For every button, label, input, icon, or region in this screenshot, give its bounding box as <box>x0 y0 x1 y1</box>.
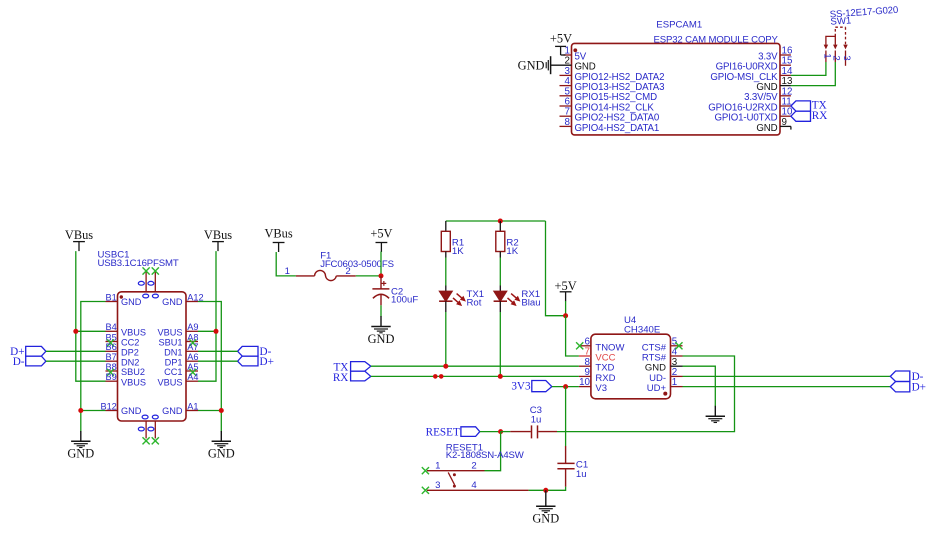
svg-text:10: 10 <box>579 377 590 388</box>
svg-text:GPIO4-HS2_DATA1: GPIO4-HS2_DATA1 <box>575 123 660 134</box>
svg-text:3: 3 <box>841 55 852 60</box>
USBC1 pin B4 (VBUS) <box>106 322 147 337</box>
svg-text:9: 9 <box>782 117 787 128</box>
svg-text:JFC0603-0500FS: JFC0603-0500FS <box>320 259 394 270</box>
svg-text:D+: D+ <box>912 381 926 393</box>
ground GND below USBC1 right <box>208 431 235 461</box>
ESPCAM1 pin 1 (5V) <box>565 46 587 63</box>
junction +5V/rail/U4 VCC <box>563 313 568 318</box>
net label TX at ESPCAM1 pin 11 <box>791 100 827 112</box>
svg-text:DN2: DN2 <box>121 357 139 367</box>
svg-text:CC2: CC2 <box>121 338 139 348</box>
svg-text:GND: GND <box>756 123 777 134</box>
USBC1 pin A1 (GND) <box>162 401 198 416</box>
U4 pin 10 (V3) <box>579 377 607 394</box>
RESET1 pin 1 with no-connect X <box>422 460 441 474</box>
wire pin A6 to D+ <box>198 360 238 362</box>
SW1 pin 2 <box>831 51 842 63</box>
wire junction down to U4 VCC pin 7 <box>566 316 579 356</box>
svg-text:1u: 1u <box>531 415 542 426</box>
wire RESET1 pin 4 to GND junction <box>529 489 546 491</box>
net label D- left <box>13 356 46 368</box>
svg-text:VBus: VBus <box>204 228 232 242</box>
svg-text:A6: A6 <box>187 352 198 362</box>
wire VBus left rail down to pin B4/B9 <box>76 251 106 381</box>
IC ESPCAM1 body (ESP32 CAM MODULE) <box>572 43 781 134</box>
ESPCAM1 pin 13 (GND) <box>756 76 793 93</box>
svg-text:RESET: RESET <box>426 426 460 438</box>
ESPCAM1 pin 8 (GPIO4-HS2_DATA1) <box>560 117 660 134</box>
USBC1 pin B5 (CC2) <box>106 332 140 347</box>
U4 pin 3 (GND) <box>645 357 683 374</box>
U4 pin 8 (TXD) <box>579 357 615 374</box>
ESPCAM1 pin 14 (GPIO-MSI_CLK) <box>710 66 793 83</box>
svg-text:V3: V3 <box>595 383 607 394</box>
svg-text:A7: A7 <box>187 342 198 352</box>
svg-text:+5V: +5V <box>550 32 572 46</box>
USBC1 pin A6 (DP1) <box>165 352 199 367</box>
ESPCAM1 pin 3 (GPIO12-HS2_DATA2) <box>560 66 665 83</box>
svg-text:CH340E: CH340E <box>624 324 660 335</box>
U4 pin 6 (TNOW) <box>579 336 625 353</box>
ESPCAM1 pin 7 (GPIO2-HS2_DATA0) <box>560 107 660 124</box>
net label D- right of U4 <box>890 371 923 383</box>
junction VBus/B4 <box>73 329 78 334</box>
svg-text:VBus: VBus <box>65 228 93 242</box>
net label D+ left <box>10 346 46 358</box>
power +5V at U4 <box>555 279 577 301</box>
ESPCAM1 pin 10 (GPIO1-U0TXD) <box>715 107 793 124</box>
wire VBus to fuse F1 pin 1 <box>276 252 296 276</box>
ESPCAM1 pin 5 (GPIO15-HS2_CMD) <box>560 86 658 103</box>
SW1 pin 1 <box>821 51 832 63</box>
USBC1 pin B7 (DN2) <box>106 352 140 367</box>
wire RX1 LED down to RX net <box>499 312 501 376</box>
connector USBC1 body (USB-C) <box>118 292 187 421</box>
svg-text:SW1: SW1 <box>830 15 852 27</box>
svg-text:B7: B7 <box>106 352 117 362</box>
wire C1 down to GND line <box>546 487 566 491</box>
svg-text:DP2: DP2 <box>121 348 139 358</box>
svg-text:D-: D- <box>13 356 25 368</box>
wire C2 to GND <box>380 305 382 316</box>
USBC1 pin B9 (VBUS) <box>106 372 147 387</box>
svg-text:A12: A12 <box>187 292 203 302</box>
svg-text:2: 2 <box>831 55 842 60</box>
no-connect X on U4 pin 6 <box>576 342 583 349</box>
svg-text:GND: GND <box>368 332 395 346</box>
resistor R1 <box>441 221 450 258</box>
svg-text:RX: RX <box>333 372 349 384</box>
junction on RX wire (right) <box>439 374 444 379</box>
ESPCAM1 pin 9 (GND) <box>756 117 790 134</box>
capacitor C1 <box>557 446 574 487</box>
power VBus middle (fuse input) <box>264 227 292 253</box>
svg-text:A1: A1 <box>187 401 198 411</box>
wire R1 to LED TX1 <box>445 258 447 286</box>
junction TX/TX1 LED <box>443 364 448 369</box>
svg-text:GND: GND <box>532 512 559 526</box>
ground GND at ESPCAM1 pin 2 (sideways) <box>518 56 551 74</box>
U4 pin 2 (UD-) <box>649 367 682 384</box>
no-connect X on U4 pin 5 <box>675 342 682 349</box>
USBC1 top shield pins with no-connect <box>138 267 159 298</box>
U4 pin 5 (CTS#) <box>642 336 683 353</box>
U4 pin 4 (RTS#) <box>642 347 683 364</box>
USBC1 pin A8 (SBU1) <box>158 332 198 347</box>
svg-text:GND: GND <box>67 447 94 461</box>
svg-text:B6: B6 <box>106 342 117 352</box>
svg-text:D+: D+ <box>260 356 274 368</box>
svg-text:1: 1 <box>435 460 440 471</box>
ESPCAM1 pin 1 marker dot <box>573 48 577 52</box>
wire pin A7 to D- <box>198 350 238 352</box>
wire RX to U4 pin 9 RXD <box>371 375 579 377</box>
svg-text:VBUS: VBUS <box>121 328 146 338</box>
svg-text:Rot: Rot <box>467 297 482 308</box>
svg-text:K2-1808SN-A4SW: K2-1808SN-A4SW <box>446 450 525 461</box>
wire junction to C3 <box>501 431 511 433</box>
junction C1/RESET1/GND <box>543 488 548 493</box>
wire TX to U4 pin 8 TXD <box>371 365 579 367</box>
svg-text:A8: A8 <box>187 332 198 342</box>
svg-text:B12: B12 <box>100 401 116 411</box>
svg-text:100uF: 100uF <box>391 295 418 306</box>
svg-text:8: 8 <box>565 117 571 128</box>
capacitor C3 <box>510 425 557 438</box>
switch SW1 body (slide switch) <box>824 27 847 48</box>
capacitor C2 (polarized) <box>372 276 389 305</box>
svg-text:GND: GND <box>162 297 183 307</box>
ground GND bottom <box>532 490 559 525</box>
svg-text:USB3.1C16PFSMT: USB3.1C16PFSMT <box>98 258 179 269</box>
ESPCAM1 pin 11 (GPIO16-U2RXD) <box>708 97 791 114</box>
wire ESPCAM1 pin 2 to GND <box>551 64 572 66</box>
net label RX at U4 <box>333 371 371 384</box>
junction 3V3/C1 <box>563 384 568 389</box>
wire D- to pin B7 <box>46 360 106 362</box>
ESPCAM1 pin 6 (GPIO14-HS2_CLK) <box>560 97 655 114</box>
svg-text:3: 3 <box>435 480 440 491</box>
USBC1 bottom shield pins with no-connect <box>138 415 159 444</box>
net label D+ right of USBC1 <box>238 356 274 368</box>
wire A1 junction down to GND <box>220 411 222 432</box>
wire +5V down to C2 junction <box>380 252 382 276</box>
wire VBus left to pin B4 <box>76 330 106 332</box>
wire 3V3 to U4 pin 10 V3 <box>552 386 579 388</box>
USBC1 pin B1 (GND) <box>106 292 142 307</box>
wire U4 pin 2 UD- to D- <box>683 375 891 377</box>
svg-text:1: 1 <box>672 377 677 388</box>
wire U4 pin 4 RTS# loop to C3 <box>557 356 735 432</box>
svg-text:GND: GND <box>121 297 142 307</box>
wire F1 pin 2 to C2 junction <box>356 275 381 277</box>
svg-text:B9: B9 <box>106 372 117 382</box>
junction VBus/A9 <box>214 329 219 334</box>
power VBus left <box>65 228 93 251</box>
power +5V at ESPCAM1 pin 1 <box>550 32 572 56</box>
wire junction down to C1 <box>565 387 567 446</box>
USBC1 pin A7 (DN1) <box>164 342 198 357</box>
SW1 pin 3 <box>841 51 852 66</box>
ESPCAM1 pin 4 (GPIO13-HS2_DATA3) <box>560 76 665 93</box>
svg-text:VBUS: VBUS <box>157 377 182 387</box>
svg-text:VBUS: VBUS <box>157 328 182 338</box>
wire U4 pin 3 GND to ground <box>683 366 716 406</box>
wire RESET junction down to RESET1 pin 2 <box>485 432 501 471</box>
wire +5V rail above R1/R2 <box>446 220 546 222</box>
svg-text:GND: GND <box>162 406 183 416</box>
svg-text:B4: B4 <box>106 322 117 332</box>
svg-text:DP1: DP1 <box>165 357 183 367</box>
junction B12/GND <box>78 408 83 413</box>
svg-text:A5: A5 <box>187 362 198 372</box>
svg-text:GND: GND <box>208 447 235 461</box>
svg-text:+5V: +5V <box>555 279 577 293</box>
svg-text:SBU1: SBU1 <box>158 338 182 348</box>
wire +5V to ESPCAM1 pin 1 <box>561 54 572 56</box>
svg-text:A4: A4 <box>187 372 198 382</box>
svg-text:GND: GND <box>121 406 142 416</box>
IC U4 CH340E body <box>591 334 671 399</box>
LED RX1 (Blau) <box>494 286 520 313</box>
svg-text:GND: GND <box>518 58 545 72</box>
push button RESET1 body <box>427 471 529 491</box>
power VBus right <box>204 228 232 251</box>
wire SW1 pin 2 to ESPCAM1 pin 13 <box>791 62 835 86</box>
svg-text:1: 1 <box>821 53 832 58</box>
svg-text:Blau: Blau <box>521 297 540 308</box>
svg-text:4: 4 <box>471 480 477 491</box>
ground GND below C2 <box>368 316 395 346</box>
svg-text:VBus: VBus <box>264 227 292 241</box>
svg-text:SBU2: SBU2 <box>121 367 145 377</box>
ground GND below U4 pin 3 <box>706 406 725 423</box>
junction A1/GND <box>219 408 224 413</box>
USBC1 pin A5 (CC1) <box>164 362 198 377</box>
fuse F1 <box>296 270 356 280</box>
resistor R2 <box>496 221 505 258</box>
wire RESET to junction <box>480 431 501 433</box>
svg-text:VBUS: VBUS <box>121 377 146 387</box>
svg-text:A9: A9 <box>187 322 198 332</box>
U4 marker dot <box>663 392 667 396</box>
wire rail right side down to +5V junction <box>546 221 566 316</box>
svg-text:1: 1 <box>285 266 290 277</box>
svg-text:1u: 1u <box>576 469 587 480</box>
wire VBus right to pin A9 <box>198 330 216 332</box>
junction rail/R2 <box>498 219 503 224</box>
ESPCAM1 pin 2 (GND) <box>565 56 596 73</box>
svg-text:RX: RX <box>812 110 828 122</box>
junction RX/RX1 LED <box>498 374 503 379</box>
USBC1 pin B8 (SBU2) <box>106 362 146 377</box>
USBC1 pin B1 marker dot <box>120 295 123 298</box>
junction RESET/C3/RESET1 <box>498 429 503 434</box>
USBC1 pin B6 (DP2) <box>106 342 139 357</box>
junction on RX wire (left) <box>433 374 438 379</box>
svg-text:1K: 1K <box>506 246 518 257</box>
USBC1 pin B12 (GND) <box>100 401 141 416</box>
svg-text:CC1: CC1 <box>164 367 182 377</box>
svg-text:3V3: 3V3 <box>511 381 531 393</box>
svg-text:1K: 1K <box>452 246 464 257</box>
svg-text:B1: B1 <box>106 292 117 302</box>
svg-text:ESP32 CAM MODULE COPY: ESP32 CAM MODULE COPY <box>654 34 779 45</box>
wire +5V down to junction <box>565 301 567 316</box>
svg-text:B5: B5 <box>106 332 117 342</box>
ground GND below USBC1 left <box>67 431 94 461</box>
svg-text:+5V: +5V <box>370 227 392 241</box>
wire B12 junction down to GND <box>80 411 82 432</box>
wire U4 pin 1 UD+ to D+ <box>683 386 891 388</box>
wire R2 to LED RX1 <box>499 258 501 286</box>
svg-text:UD+: UD+ <box>647 383 667 394</box>
wire TX1 LED down to TX net <box>445 312 447 366</box>
USBC1 pin A4 (VBUS) <box>157 372 198 387</box>
RESET1 pin 3 with no-connect X <box>422 480 441 494</box>
svg-text:DN1: DN1 <box>164 348 182 358</box>
net label RX at ESPCAM1 pin 10 <box>791 110 827 122</box>
junction F1/+5V/C2 <box>379 273 384 278</box>
USBC1 pin A12 (GND) <box>162 292 204 307</box>
net label TX at U4 <box>333 361 370 373</box>
ESPCAM1 pin 12 (3.3V/5V) <box>744 86 792 103</box>
wire D+ to pin B6 <box>46 350 106 352</box>
net label RESET <box>426 426 480 438</box>
net label 3V3 <box>511 381 551 393</box>
U4 pin 9 (RXD) <box>579 367 616 384</box>
wire GND rail right (A12 to A1) <box>198 302 221 411</box>
net label D+ right of U4 <box>890 381 926 393</box>
LED TX1 (Rot) <box>439 286 465 313</box>
U4 pin 1 (UD+) <box>647 377 683 394</box>
wire GND rail left (B1 to B12) <box>81 302 106 411</box>
USBC1 pin A9 (VBUS) <box>157 322 198 337</box>
svg-text:B8: B8 <box>106 362 117 372</box>
wire VBus right rail down to A9/A4 <box>198 251 216 381</box>
U4 pin 7 (VCC) <box>579 347 616 364</box>
ESPCAM1 pin 15 (GPI16-U0RXD) <box>716 56 793 73</box>
svg-text:2: 2 <box>471 460 476 471</box>
net label D- right of USBC1 <box>238 346 272 358</box>
svg-text:ESPCAM1: ESPCAM1 <box>656 20 702 31</box>
wire SW1 pin 1 to ESPCAM1 pin 14 <box>791 62 826 75</box>
power +5V middle (above C2) <box>370 227 392 253</box>
ESPCAM1 pin 16 (3.3V) <box>758 46 793 63</box>
